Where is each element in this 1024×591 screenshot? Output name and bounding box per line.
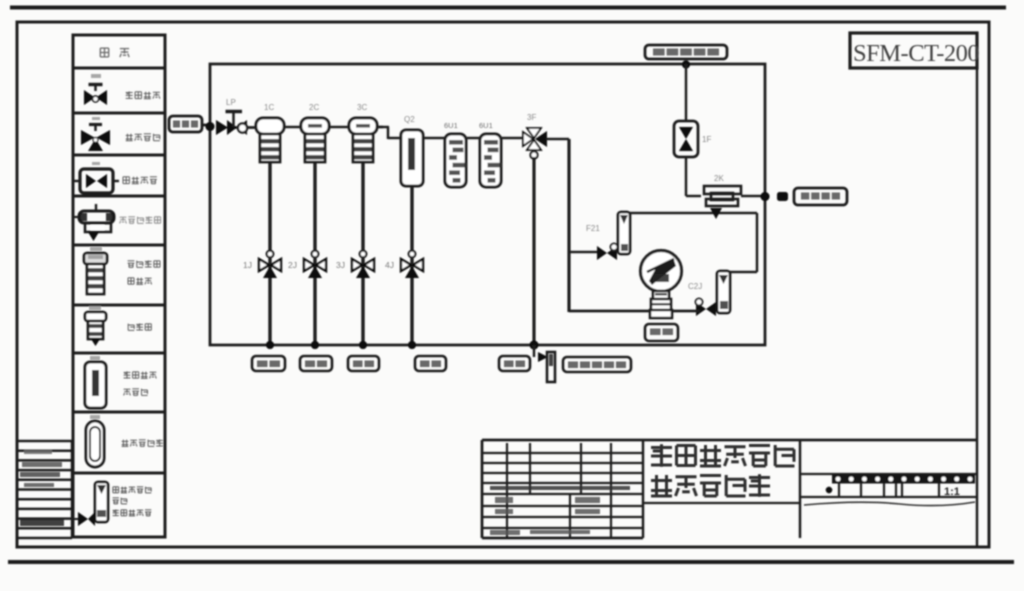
- svg-text:1F: 1F: [702, 135, 711, 144]
- svg-text:C2J: C2J: [688, 282, 702, 291]
- svg-text:4J: 4J: [385, 260, 394, 270]
- svg-text:2J: 2J: [288, 260, 297, 270]
- svg-text:1C: 1C: [264, 103, 274, 112]
- svg-text:Q2: Q2: [404, 115, 415, 124]
- svg-text:LP: LP: [226, 98, 236, 107]
- svg-text:6U1: 6U1: [479, 121, 493, 130]
- svg-text:SFM-CT-200: SFM-CT-200: [853, 40, 979, 67]
- svg-text:F21: F21: [586, 224, 600, 233]
- svg-text:6U1: 6U1: [444, 121, 458, 130]
- svg-text:3J: 3J: [336, 260, 345, 270]
- svg-text:2K: 2K: [714, 174, 724, 183]
- svg-text:3F: 3F: [527, 113, 536, 122]
- svg-text:2C: 2C: [309, 103, 319, 112]
- svg-text:1J: 1J: [243, 260, 252, 270]
- svg-text:3C: 3C: [357, 103, 367, 112]
- svg-text:1:1: 1:1: [944, 486, 960, 498]
